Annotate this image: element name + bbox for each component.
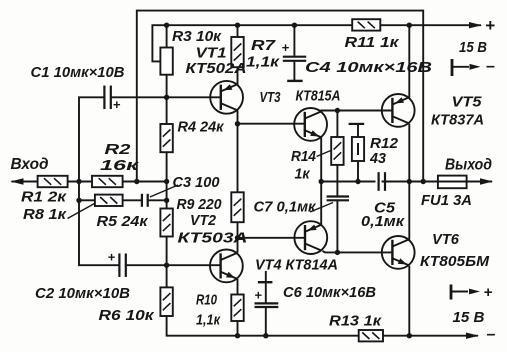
wire VT5 collector to output	[408, 124, 410, 182]
svg-text:+: +	[485, 16, 495, 35]
resistor R14	[331, 137, 343, 165]
svg-text:R5 24к: R5 24к	[97, 214, 149, 230]
wire VT4 collector row to VT6 base	[323, 251, 393, 253]
label R8 value	[23, 207, 67, 223]
svg-text:С6 10мк×16В: С6 10мк×16В	[283, 285, 376, 301]
capacitor C6 (electrolytic)	[255, 282, 279, 307]
node row2-colA	[164, 198, 169, 203]
label + of C4	[282, 40, 290, 55]
svg-text:R14: R14	[291, 149, 316, 165]
resistor R3 (trimmer, plain box with side tap)	[160, 48, 172, 75]
label Vyhod (output)	[445, 157, 492, 174]
label R11 value	[345, 35, 400, 51]
wire VT2 emitter to R10	[237, 279, 239, 295]
capacitor C5	[379, 172, 385, 191]
svg-text:+: +	[254, 288, 262, 303]
label R14	[291, 149, 316, 165]
svg-text:Выход: Выход	[445, 157, 492, 174]
svg-text:FU1 3А: FU1 3А	[421, 193, 472, 209]
transistor VT2 (KT503A, NPN)	[210, 250, 243, 283]
svg-text:1,1к: 1,1к	[246, 55, 280, 71]
node bottom-VT6	[407, 333, 412, 338]
node rail-R3	[164, 23, 169, 28]
label R5 value	[97, 214, 149, 230]
wire C4 stem from rail	[293, 25, 295, 56]
label C1 value	[31, 65, 125, 81]
node bottom-C6	[263, 333, 268, 338]
svg-text:КТ815А: КТ815А	[296, 89, 341, 105]
battery terminal lower (15V plus)	[451, 284, 493, 301]
capacitor C1	[104, 86, 110, 110]
wire feedback loop from output to input node (top outer wire)	[137, 11, 423, 182]
svg-text:КТ503А: КТ503А	[178, 231, 248, 247]
label R12	[370, 136, 398, 152]
svg-text:С2 10мк×10В: С2 10мк×10В	[35, 286, 130, 302]
node input	[76, 179, 81, 184]
resistor R13	[359, 330, 383, 341]
wire node A down through R9 to node B	[237, 124, 239, 238]
label + of C2	[108, 250, 116, 265]
wire output row: node to C5 to FU1	[321, 181, 438, 183]
label R6 value	[99, 308, 155, 324]
svg-text:R9 220: R9 220	[177, 197, 222, 213]
svg-text:–: –	[487, 326, 496, 343]
label C2 value	[35, 286, 130, 302]
svg-text:R6 10к: R6 10к	[99, 308, 155, 324]
node output-feedback	[421, 179, 426, 184]
wire node A to VT3 base	[238, 123, 305, 125]
label R7	[251, 38, 276, 54]
node A VT1 collector	[235, 121, 240, 126]
node VT1 base	[164, 95, 169, 100]
svg-text:1,1к: 1,1к	[196, 313, 221, 329]
label Vhod (input)	[11, 156, 49, 173]
resistor R6	[160, 287, 172, 316]
node C7 bottom	[335, 250, 340, 255]
svg-text:КТ837А: КТ837А	[431, 113, 484, 129]
label VT4 and type	[255, 258, 338, 274]
label + of C6	[254, 288, 262, 303]
arrow input Vhod	[11, 178, 24, 184]
node output-VT34	[319, 179, 324, 184]
wire C7 bottom stem	[336, 201, 338, 253]
battery terminal upper (15V minus)	[452, 58, 495, 76]
svg-text:С7 0,1мк: С7 0,1мк	[254, 200, 317, 216]
wire VT6 emitter to bottom rail	[408, 266, 410, 336]
svg-text:16к: 16к	[100, 158, 139, 174]
label R2	[105, 142, 131, 158]
fuse FU1	[438, 176, 467, 189]
transistor VT3 (KT815A, NPN)	[294, 108, 327, 141]
label R3 value	[172, 29, 222, 45]
svg-text:R11 1к: R11 1к	[345, 35, 400, 51]
wire VT3 emitter down, output node, VT4 emitter up	[320, 137, 322, 224]
R12 top T-bar	[349, 123, 365, 125]
label R12 value	[369, 151, 386, 167]
label VT6	[432, 232, 460, 248]
wire R7 to VT1 emitter	[237, 67, 239, 84]
wire FU1 to output arrow	[467, 181, 492, 183]
svg-text:R8 1к: R8 1к	[23, 207, 67, 223]
label R13 value	[329, 314, 382, 330]
label VT5	[452, 95, 483, 111]
wire C6 stems	[265, 271, 267, 336]
label C7 value	[254, 200, 317, 216]
pointer C7 label	[310, 203, 333, 213]
label C6 value	[283, 285, 376, 301]
svg-text:15 В: 15 В	[459, 40, 487, 56]
node R14 top	[335, 108, 340, 113]
svg-text:R1 2к: R1 2к	[21, 190, 67, 206]
label VT6 type	[420, 254, 490, 270]
wire VT1 base row (C1 to base)	[111, 96, 221, 98]
node bottom-R10	[235, 333, 240, 338]
arrow -15V bottom rail	[466, 333, 479, 339]
label VT5 type	[431, 113, 484, 129]
svg-text:0,1мк: 0,1мк	[361, 214, 405, 230]
svg-text:КТ502А: КТ502А	[186, 61, 247, 77]
svg-text:+: +	[108, 250, 116, 265]
label R4 value	[178, 120, 225, 136]
label R1 value	[21, 190, 67, 206]
svg-text:R10: R10	[196, 293, 217, 309]
transistor VT5 (KT837A, PNP)	[382, 94, 415, 127]
svg-text:R4 24к: R4 24к	[178, 120, 225, 136]
label VT1 type	[186, 61, 247, 77]
wire input column (C1 left down to C2 left)	[79, 97, 119, 265]
transistor VT6 (KT805BM, NPN)	[382, 236, 415, 269]
capacitor C3	[142, 194, 148, 207]
node B VT2 collector	[235, 235, 240, 240]
svg-text:43: 43	[369, 151, 386, 167]
label FU1 value	[421, 193, 472, 209]
resistor R9	[231, 192, 243, 222]
pointer C3 label	[150, 185, 178, 197]
wire R14 stem from collector row	[336, 111, 338, 138]
wire row2: node to R8 to C3 to colA	[79, 199, 167, 201]
label VT2 type	[178, 231, 248, 247]
resistor R11	[352, 19, 380, 30]
wire VT6 collector to output	[408, 182, 410, 240]
label C4 value	[305, 60, 432, 76]
svg-text:VT4 КТ814А: VT4 КТ814А	[255, 258, 338, 274]
wire VT3 collector row to VT5 base	[321, 111, 392, 112]
svg-text:VT3: VT3	[260, 90, 281, 106]
arrow output	[480, 178, 493, 184]
svg-text:VT1: VT1	[196, 46, 227, 62]
svg-text:Вход: Вход	[11, 156, 49, 173]
label + on positive rail	[485, 16, 495, 35]
label R14 value	[295, 167, 311, 183]
label R10	[196, 293, 217, 309]
resistor R1	[38, 176, 68, 187]
label C3 value	[173, 175, 220, 191]
wire positive rail from R11 to +15V arrow	[380, 24, 481, 26]
svg-text:С3 100: С3 100	[173, 175, 220, 191]
svg-text:+: +	[282, 40, 290, 55]
label 15V upper	[459, 40, 487, 56]
wire bottom rail right of R13	[383, 335, 478, 337]
svg-text:R2: R2	[105, 142, 131, 158]
wire R12 bottom to output wire	[357, 161, 359, 182]
node rail-C4	[292, 23, 297, 28]
label VT1	[196, 46, 227, 62]
resistor R7	[231, 37, 243, 67]
label VT2	[190, 213, 216, 229]
resistor R2	[92, 176, 123, 187]
svg-text:R3 10к: R3 10к	[172, 29, 222, 45]
svg-text:R12: R12	[370, 136, 398, 152]
node output-R12	[355, 179, 360, 184]
wire R14 bottom to C7 top (crossing output wire)	[336, 165, 338, 196]
arrow +15V rail	[469, 22, 482, 28]
resistor R5	[160, 209, 172, 237]
transistor VT1 (KT502A, PNP)	[210, 81, 243, 114]
wire column R3-R4-R9... (left bias column)	[167, 25, 359, 336]
label R2 value	[100, 158, 139, 174]
svg-text:R13 1к: R13 1к	[329, 314, 382, 330]
label R7 value	[246, 55, 280, 71]
svg-text:VТ6: VТ6	[432, 232, 460, 248]
resistor R8	[95, 195, 123, 206]
svg-text:VT2: VT2	[190, 213, 216, 229]
label VT3	[260, 90, 281, 106]
wire inner positive rail with R3 tap corner	[152, 25, 352, 61]
wire column B: rail to R7	[237, 25, 239, 37]
wire R12 T-bar stem	[357, 125, 359, 137]
svg-text:R7: R7	[251, 38, 276, 54]
svg-text:КТ805БМ: КТ805БМ	[420, 254, 490, 270]
node rail-VT5	[407, 23, 412, 28]
label R10 value	[196, 313, 221, 329]
svg-text:1к: 1к	[295, 167, 311, 183]
svg-text:С4 10мк×16В: С4 10мк×16В	[305, 60, 432, 76]
wire C2 row to VT2 base	[126, 264, 221, 266]
node row2-input	[76, 198, 81, 203]
resistor R4	[160, 124, 172, 152]
node rail-R7	[235, 23, 240, 28]
label 15V lower	[453, 310, 485, 326]
capacitor C2	[119, 253, 125, 277]
svg-text:VT5: VT5	[452, 95, 483, 111]
svg-text:+: +	[113, 97, 121, 112]
svg-text:С1 10мк×10В: С1 10мк×10В	[31, 65, 125, 81]
label C5	[374, 201, 396, 217]
svg-text:–: –	[486, 58, 495, 75]
wire VT1 collector to node A	[237, 110, 239, 124]
label R9 value	[177, 197, 222, 213]
label + of C1	[113, 97, 121, 112]
label VT3 type	[296, 89, 341, 105]
transistor VT4 (KT814A, PNP)	[294, 221, 327, 254]
wire R10 to bottom rail	[237, 321, 239, 336]
capacitor C4 (electrolytic)	[283, 57, 306, 81]
capacitor C7	[327, 197, 349, 201]
node output-VT5VT6	[407, 179, 412, 184]
resistor R12 (0.5W vertical mark)	[352, 137, 364, 161]
svg-text:15 В: 15 В	[453, 310, 485, 326]
node feedback row1	[134, 179, 139, 184]
wire node B to VT4 base	[238, 237, 306, 239]
wire input row1: Vhod arrow to R1 to R2 to colA	[12, 181, 167, 183]
label C5 value	[361, 214, 405, 230]
node C2-R6-VT2base	[164, 263, 169, 268]
svg-text:+: +	[484, 284, 493, 301]
wire VT5 emitter to rail	[408, 25, 410, 97]
label - on bottom rail	[487, 326, 496, 343]
wire node B down to VT2 collector	[237, 238, 239, 253]
pointer R14 label	[317, 150, 333, 157]
resistor R10	[231, 295, 243, 322]
node row1-colA	[164, 179, 169, 184]
pointer R8 to its box	[68, 204, 95, 219]
